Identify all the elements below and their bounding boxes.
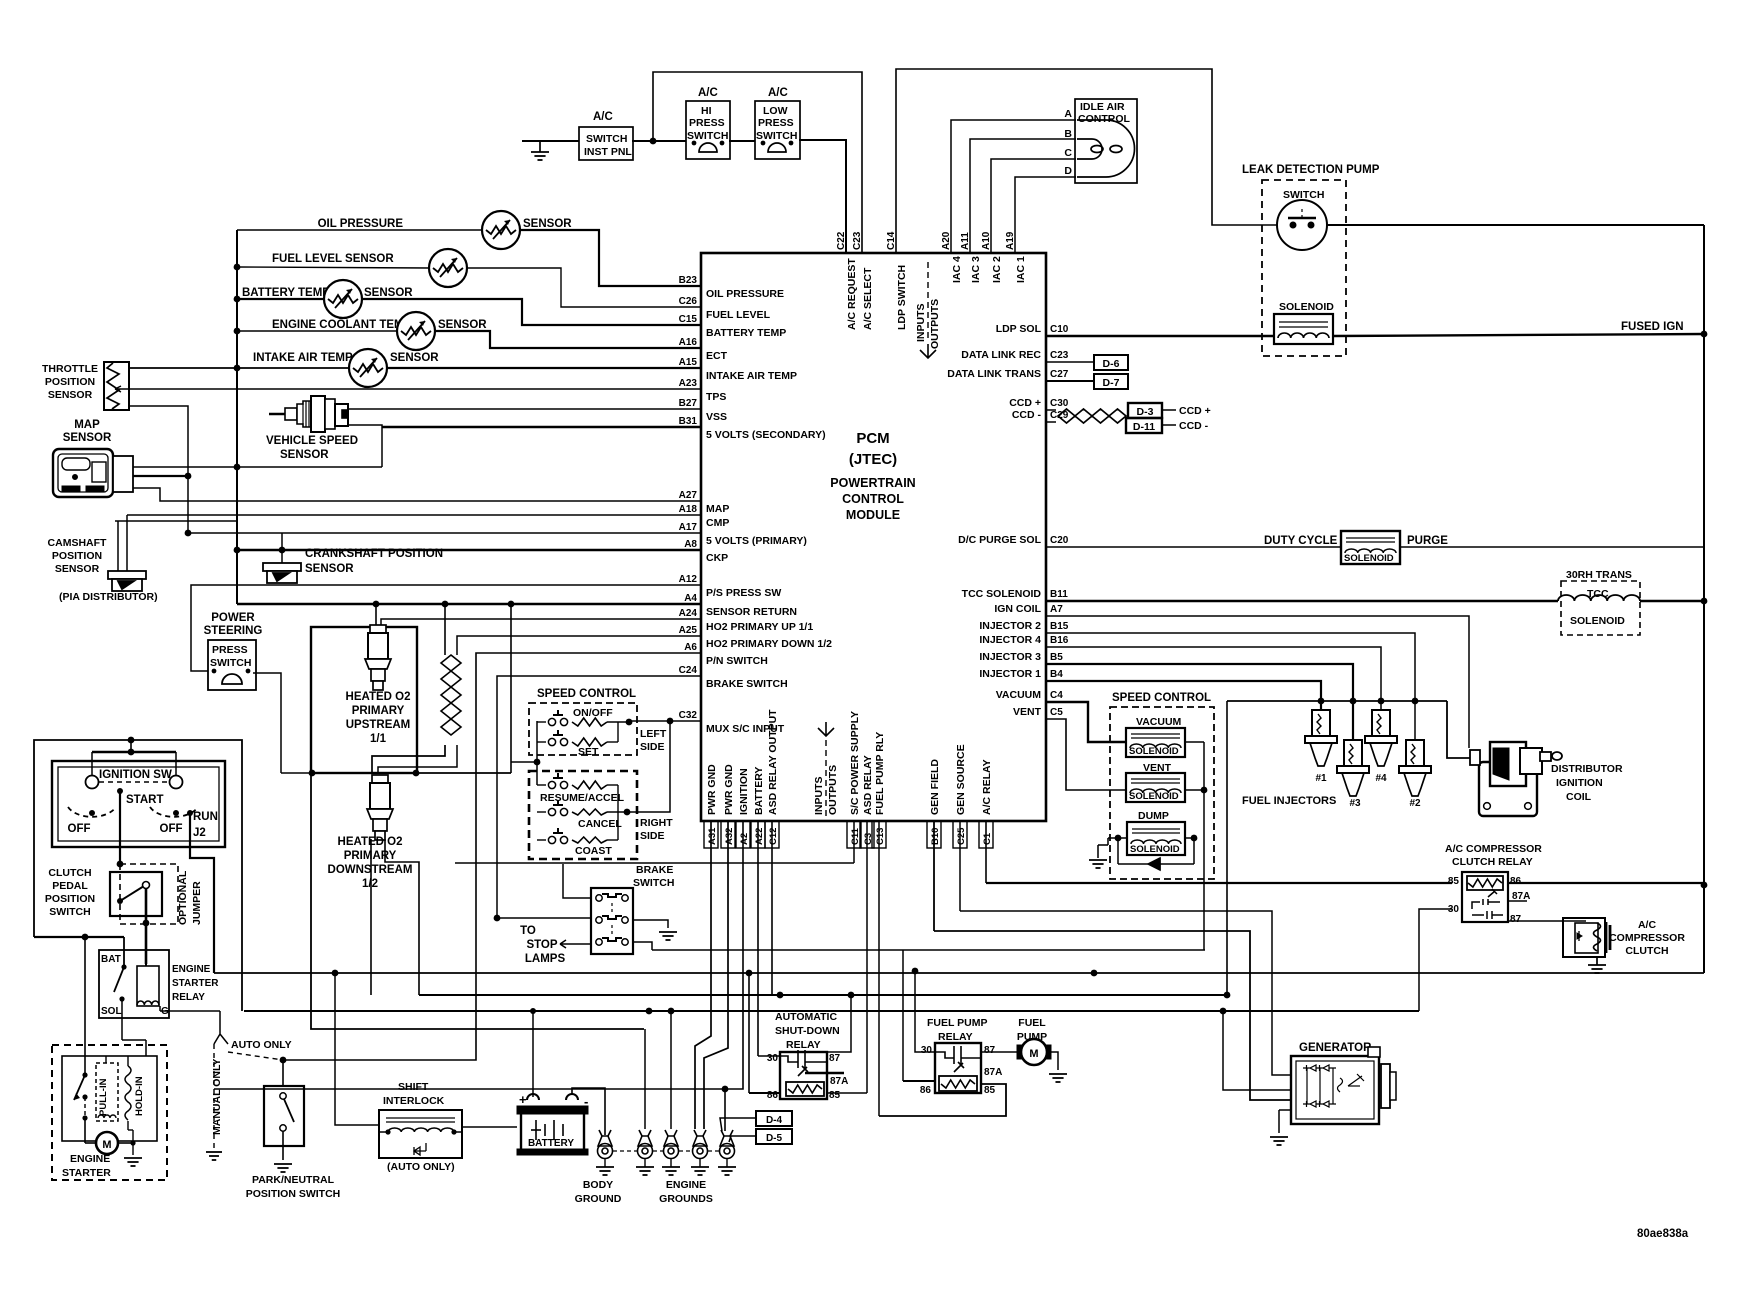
wire AC relay 86 to fused ign [1509,882,1704,884]
svg-text:C22: C22 [836,231,847,250]
junction [1220,1008,1227,1015]
svg-text:SWITCH: SWITCH [687,130,728,142]
svg-text:C13: C13 [875,828,886,845]
ignition pole right [170,776,183,789]
bottom pin box A31 [704,821,718,848]
svg-text:ENGINE: ENGINE [70,1153,110,1165]
wire [1278,1110,1280,1133]
D-4 box [756,1111,792,1126]
svg-text:A19: A19 [1005,231,1016,250]
svg-text:JUMPER: JUMPER [191,881,203,925]
battery temp sensor [324,280,362,318]
wire crank sensor stem [281,533,283,563]
wire [676,618,701,620]
junction [117,788,123,794]
svg-text:SENSOR: SENSOR [305,563,354,575]
svg-text:COMPRESSOR: COMPRESSOR [1609,932,1685,944]
svg-text:P/S PRESS SW: P/S PRESS SW [706,587,781,599]
junction [1701,598,1708,605]
on/off button [548,710,567,726]
svg-text:A31: A31 [707,827,718,845]
wire cam sensor signal [126,515,128,571]
wire [145,1040,147,1056]
svg-text:TPS: TPS [706,391,726,403]
svg-text:START: START [126,794,163,806]
LDP solenoid box [1274,314,1333,344]
svg-text:#2: #2 [1409,798,1421,809]
svg-text:GEN SOURCE: GEN SOURCE [955,744,967,815]
heated O2 downstream sensor [367,775,393,840]
ground ac clutch ground [1588,965,1606,973]
wire [1045,718,1047,720]
svg-text:CCD +: CCD + [1179,405,1211,417]
svg-text:BATTERY TEMP: BATTERY TEMP [706,327,786,339]
wire [1185,741,1204,743]
svg-text:ON/OFF: ON/OFF [573,707,613,719]
wire battery + feed [532,1011,534,1097]
ground eng4 gnd [718,1167,736,1175]
coil [1131,840,1181,844]
wire [539,141,541,152]
svg-text:LAMPS: LAMPS [525,953,566,965]
junction [1412,698,1419,705]
coil [1130,789,1181,793]
wire A/C select C23 [653,72,862,253]
brake switch box [591,888,633,954]
wire [607,741,618,743]
wire [679,1150,692,1152]
svg-text:D-7: D-7 [1103,377,1120,389]
junction [534,759,541,766]
svg-text:B23: B23 [679,275,698,286]
MAP connector [113,456,133,492]
wire [1596,957,1598,965]
junction [128,737,135,744]
svg-text:SENSOR: SENSOR [523,218,572,230]
bottom pin box C1 [979,821,993,848]
svg-text:PARK/NEUTRAL: PARK/NEUTRAL [252,1174,335,1186]
svg-text:INTAKE AIR TEMP: INTAKE AIR TEMP [706,370,797,382]
wire G wire [160,1010,220,1012]
svg-text:OFF: OFF [160,823,183,835]
junction [692,141,697,146]
junction [848,992,855,999]
clutch pedal switch box [110,872,162,916]
twisted pair ho2 twisted pair [441,655,461,735]
wire [282,1131,284,1160]
power steering press switch box [208,640,256,690]
wire [1131,733,1180,735]
svg-text:LEFT: LEFT [640,728,667,740]
svg-text:P/N SWITCH: P/N SWITCH [706,655,768,667]
svg-text:AUTO ONLY: AUTO ONLY [231,1039,292,1051]
svg-text:SWITCH: SWITCH [210,657,251,669]
svg-text:A/C RELAY: A/C RELAY [981,759,993,815]
svg-text:30RH TRANS: 30RH TRANS [1566,569,1632,581]
junction [332,970,339,977]
svg-text:VACUUM: VACUUM [996,689,1042,701]
svg-text:85: 85 [984,1085,996,1096]
svg-text:CAMSHAFT: CAMSHAFT [48,537,107,549]
svg-text:SOL: SOL [101,1006,122,1017]
wire [123,937,125,967]
vacuum solenoid box [1126,728,1185,757]
injector injector 2 [1399,740,1431,796]
svg-text:A12: A12 [679,574,698,585]
wire sensor return to vss [237,466,382,468]
svg-text:ENGINE: ENGINE [172,964,211,975]
svg-text:A6: A6 [684,642,697,653]
wire ac 87A stub [1508,900,1527,902]
wire interlock to battery [454,1127,517,1132]
junction [117,898,123,904]
wire [118,1142,133,1144]
svg-text:HOLD-IN: HOLD-IN [134,1076,145,1116]
bottom pin box A32 [721,821,735,848]
throttle position sensor box [104,362,129,410]
wire [613,1150,637,1152]
svg-text:RESUME/ACCEL: RESUME/ACCEL [540,792,625,804]
svg-text:OIL PRESSURE: OIL PRESSURE [706,288,784,300]
wire [537,811,546,813]
wire asd feed line [419,994,1227,996]
wire [537,784,546,786]
wire A6 to park neutral switch [283,653,701,1060]
LDP switch [1277,200,1327,250]
svg-text:J2: J2 [193,827,206,839]
svg-text:CKP: CKP [706,552,728,564]
junction [119,996,124,1001]
svg-text:SET: SET [578,746,599,758]
D-5 box [756,1129,792,1144]
on/off resistor [572,718,607,726]
wire fp 86 wire [903,1080,935,1082]
svg-text:A/C: A/C [768,87,788,99]
svg-text:VSS: VSS [706,411,727,423]
vent solenoid box [1126,773,1185,802]
svg-text:SOLENOID: SOLENOID [1130,844,1180,855]
starter relay switch [114,967,124,992]
purge solenoid box [1341,531,1400,564]
wire ignition poles bus [92,751,176,754]
svg-text:POWERTRAIN: POWERTRAIN [830,476,915,490]
wire run j2 wire [190,813,214,973]
svg-text:A7: A7 [1050,604,1063,615]
wire clutch sw out [145,889,148,923]
wire battery temp to C15 [361,299,701,325]
wire ect to A16 [434,331,701,348]
wire B10 drop [933,821,935,931]
svg-text:POSITION: POSITION [52,550,102,562]
wire intake air line from TPS [129,367,350,369]
junction [185,530,192,537]
wire [1045,632,1047,634]
wire [676,549,701,551]
svg-text:A/C: A/C [698,87,718,99]
leak detection pump dashed box [1262,180,1346,356]
svg-text:+: + [519,1092,527,1107]
junction [789,141,794,146]
svg-text:CLUTCH RELAY: CLUTCH RELAY [1452,856,1533,868]
wire o2 dn wire2 [385,839,419,995]
wire [1162,409,1176,411]
wire [99,781,169,783]
wire [611,925,613,935]
svg-text:CRANKSHAFT POSITION: CRANKSHAFT POSITION [305,548,443,560]
svg-text:MANUAL ONLY: MANUAL ONLY [211,1059,223,1135]
junction [212,669,217,674]
svg-text:LDP SWITCH: LDP SWITCH [896,265,908,330]
wire MAP return [133,466,237,468]
svg-text:SHIFT: SHIFT [398,1081,429,1093]
wire [1162,424,1176,426]
wire [676,584,701,586]
svg-text:SWITCH: SWITCH [756,130,797,142]
wire [676,652,701,654]
svg-text:IGNITION: IGNITION [738,768,750,815]
wire a22 to asd 30 [758,1055,780,1057]
svg-text:SOLENOID: SOLENOID [1129,746,1179,757]
wire [378,1131,388,1133]
svg-text:CLUTCH: CLUTCH [48,867,91,879]
svg-text:DATA LINK REC: DATA LINK REC [961,349,1041,361]
svg-text:VENT: VENT [1013,706,1042,718]
svg-text:INPUTS: INPUTS [915,303,927,342]
svg-text:LOW: LOW [763,105,788,117]
wire twist to o2 dn [372,745,445,773]
resume resistor [572,781,607,789]
svg-text:SIDE: SIDE [640,830,665,842]
bottom pin box B10 [927,821,941,848]
wire [676,635,701,637]
wire A31 pwr gnd [695,821,711,1129]
svg-text:HI: HI [701,105,712,117]
svg-text:B4: B4 [1050,669,1063,680]
svg-text:B11: B11 [1050,589,1068,600]
wire [676,347,701,349]
svg-text:C26: C26 [679,296,698,307]
svg-text:D-11: D-11 [1133,421,1155,433]
svg-text:A22: A22 [754,828,765,845]
svg-text:C20: C20 [1050,535,1069,546]
A/C hi press switch box [686,101,730,159]
svg-text:86: 86 [1510,876,1522,887]
svg-text:FUEL PUMP: FUEL PUMP [927,1017,987,1029]
svg-text:POSITION SWITCH: POSITION SWITCH [246,1188,341,1200]
wire [386,1121,455,1123]
crankshaft sensor symbol [263,563,301,583]
svg-text:FUEL: FUEL [1018,1017,1046,1029]
coast resistor [572,837,607,843]
wire [1045,615,1047,617]
coast button [548,828,567,844]
svg-text:IGNITION SW: IGNITION SW [99,769,172,781]
svg-text:87: 87 [984,1045,996,1056]
ground pn switch ground [274,1164,292,1172]
svg-text:A8: A8 [684,539,697,550]
wire C20 purge [1046,546,1341,548]
engine starter relay box [99,950,169,1018]
svg-text:A/C SELECT: A/C SELECT [862,267,874,330]
svg-text:PRESS: PRESS [212,644,248,656]
wire MAP 5v [133,475,188,477]
clutch switch arm [120,886,144,901]
bottom pin box C3 [860,821,874,848]
svg-text:RELAY: RELAY [786,1039,821,1051]
wire VSS low pin [348,425,382,467]
svg-text:85: 85 [829,1090,841,1101]
svg-text:A15: A15 [679,357,698,368]
svg-text:FUEL PUMP RLY: FUEL PUMP RLY [874,732,886,815]
svg-text:PRESS: PRESS [689,117,725,129]
svg-text:INJECTOR 3: INJECTOR 3 [979,651,1041,663]
wire heater loop ext [417,772,511,774]
svg-text:B5: B5 [1050,652,1063,663]
wire [132,1130,134,1155]
wire TPS 5v to A17 line [129,406,188,533]
wire [121,1018,123,1040]
svg-text:C4: C4 [1050,690,1063,701]
svg-text:C25: C25 [956,827,967,845]
starter switch [74,1075,85,1100]
wire [676,514,701,516]
wire C25 drop [959,821,961,911]
svg-text:SENSOR: SENSOR [390,352,439,364]
svg-text:87: 87 [829,1053,841,1064]
svg-text:30: 30 [767,1053,779,1064]
svg-text:85: 85 [1448,876,1460,887]
svg-text:C30: C30 [1050,398,1069,409]
wire [1045,380,1047,382]
svg-text:CCD +: CCD + [1009,397,1041,409]
wire A12 to power steering switch [191,585,701,671]
wire LDP switch C14 [896,69,1277,253]
svg-text:(JTEC): (JTEC) [849,451,897,468]
svg-text:HO2 PRIMARY DOWN 1/2: HO2 PRIMARY DOWN 1/2 [706,638,832,650]
wire [1185,837,1194,839]
shift interlock coil [388,1128,454,1132]
wire [676,532,701,534]
svg-text:SENSOR RETURN: SENSOR RETURN [706,606,797,618]
junction [130,1140,135,1145]
junction [279,547,286,554]
wire [676,367,701,369]
svg-text:FUSED IGN: FUSED IGN [1621,321,1684,333]
ac relay coil+contacts [1467,876,1503,890]
wire [574,943,591,945]
wire start wire [119,791,121,864]
wire [676,603,701,605]
svg-text:D-3: D-3 [1137,406,1154,418]
wire [1131,737,1180,739]
starter motor [96,1132,118,1154]
wire B16 inj4 [1046,647,1381,710]
wire A22 battery [757,821,759,1056]
wire [604,1158,606,1167]
svg-text:RIGHT: RIGHT [640,817,673,829]
fuel pump motor [1017,1039,1051,1065]
wire interlock feed [335,973,379,1125]
wire manual only dashed [213,1044,215,1148]
svg-text:SPEED CONTROL: SPEED CONTROL [537,688,636,700]
speed control solenoids dashed box [1110,707,1214,879]
svg-text:PWR GND: PWR GND [723,764,735,815]
wire [1279,1109,1291,1111]
svg-text:DUTY CYCLE: DUTY CYCLE [1264,535,1338,547]
junction [777,992,784,999]
wire ac 87 to clutch [1508,920,1586,922]
wire [85,1142,96,1144]
svg-text:C27: C27 [1050,369,1069,380]
pn switch contacts [280,1093,286,1099]
wire [1045,646,1047,648]
svg-text:CCD -: CCD - [1012,409,1042,421]
svg-text:GENERATOR: GENERATOR [1299,1042,1372,1054]
svg-text:UPSTREAM: UPSTREAM [346,719,411,731]
wire [1045,335,1047,337]
wire A4 sensor return [237,603,701,605]
ground bolt eng2 [664,1130,679,1159]
svg-text:C15: C15 [679,314,698,325]
svg-text:THROTTLE: THROTTLE [42,363,98,375]
svg-text:OIL PRESSURE: OIL PRESSURE [318,218,404,230]
wire IAC1 D [1015,177,1076,253]
svg-text:A/C REQUEST: A/C REQUEST [846,258,858,330]
junction [668,1008,675,1015]
wire cam return line [115,520,237,522]
wire [130,740,132,752]
junction [451,1129,456,1134]
svg-text:A2: A2 [739,833,750,845]
ground dump solenoid ground [1089,860,1107,868]
svg-text:SENSOR: SENSOR [48,389,93,401]
junction [646,1008,653,1015]
junction [1201,787,1208,794]
svg-text:B16: B16 [1050,635,1069,646]
svg-text:C24: C24 [679,665,698,676]
wire [699,1158,701,1167]
junction [508,601,515,608]
ground bolt eng3 [693,1130,708,1159]
junction [234,264,241,271]
wire [1098,844,1108,846]
svg-text:#4: #4 [1375,773,1387,784]
svg-text:SHUT-DOWN: SHUT-DOWN [775,1025,840,1037]
svg-text:PURGE: PURGE [1407,535,1448,547]
wire [84,1118,86,1143]
junction [494,915,501,922]
wire VSS to B27 [348,408,701,410]
svg-text:A/C: A/C [593,111,613,123]
asd relay box [780,1052,827,1099]
junction [82,1072,87,1077]
svg-text:PCM: PCM [856,430,889,447]
svg-text:S/C POWER SUPPLY: S/C POWER SUPPLY [849,711,861,815]
svg-text:SENSOR: SENSOR [280,449,329,461]
bottom pin box C25 [953,821,967,848]
D-6 box [1094,355,1128,370]
svg-text:AUTOMATIC: AUTOMATIC [775,1011,837,1023]
svg-text:GEN FIELD: GEN FIELD [929,759,941,815]
wire [617,785,619,840]
wire hi to low press [729,140,755,142]
wire C24 to brake switch [497,676,701,918]
ground eng1 gnd [636,1167,654,1175]
wire asd 87A stub [805,1072,844,1074]
wire supply to coil [1447,701,1470,758]
svg-text:DATA LINK TRANS: DATA LINK TRANS [947,368,1041,380]
interlock diode [414,1143,426,1155]
